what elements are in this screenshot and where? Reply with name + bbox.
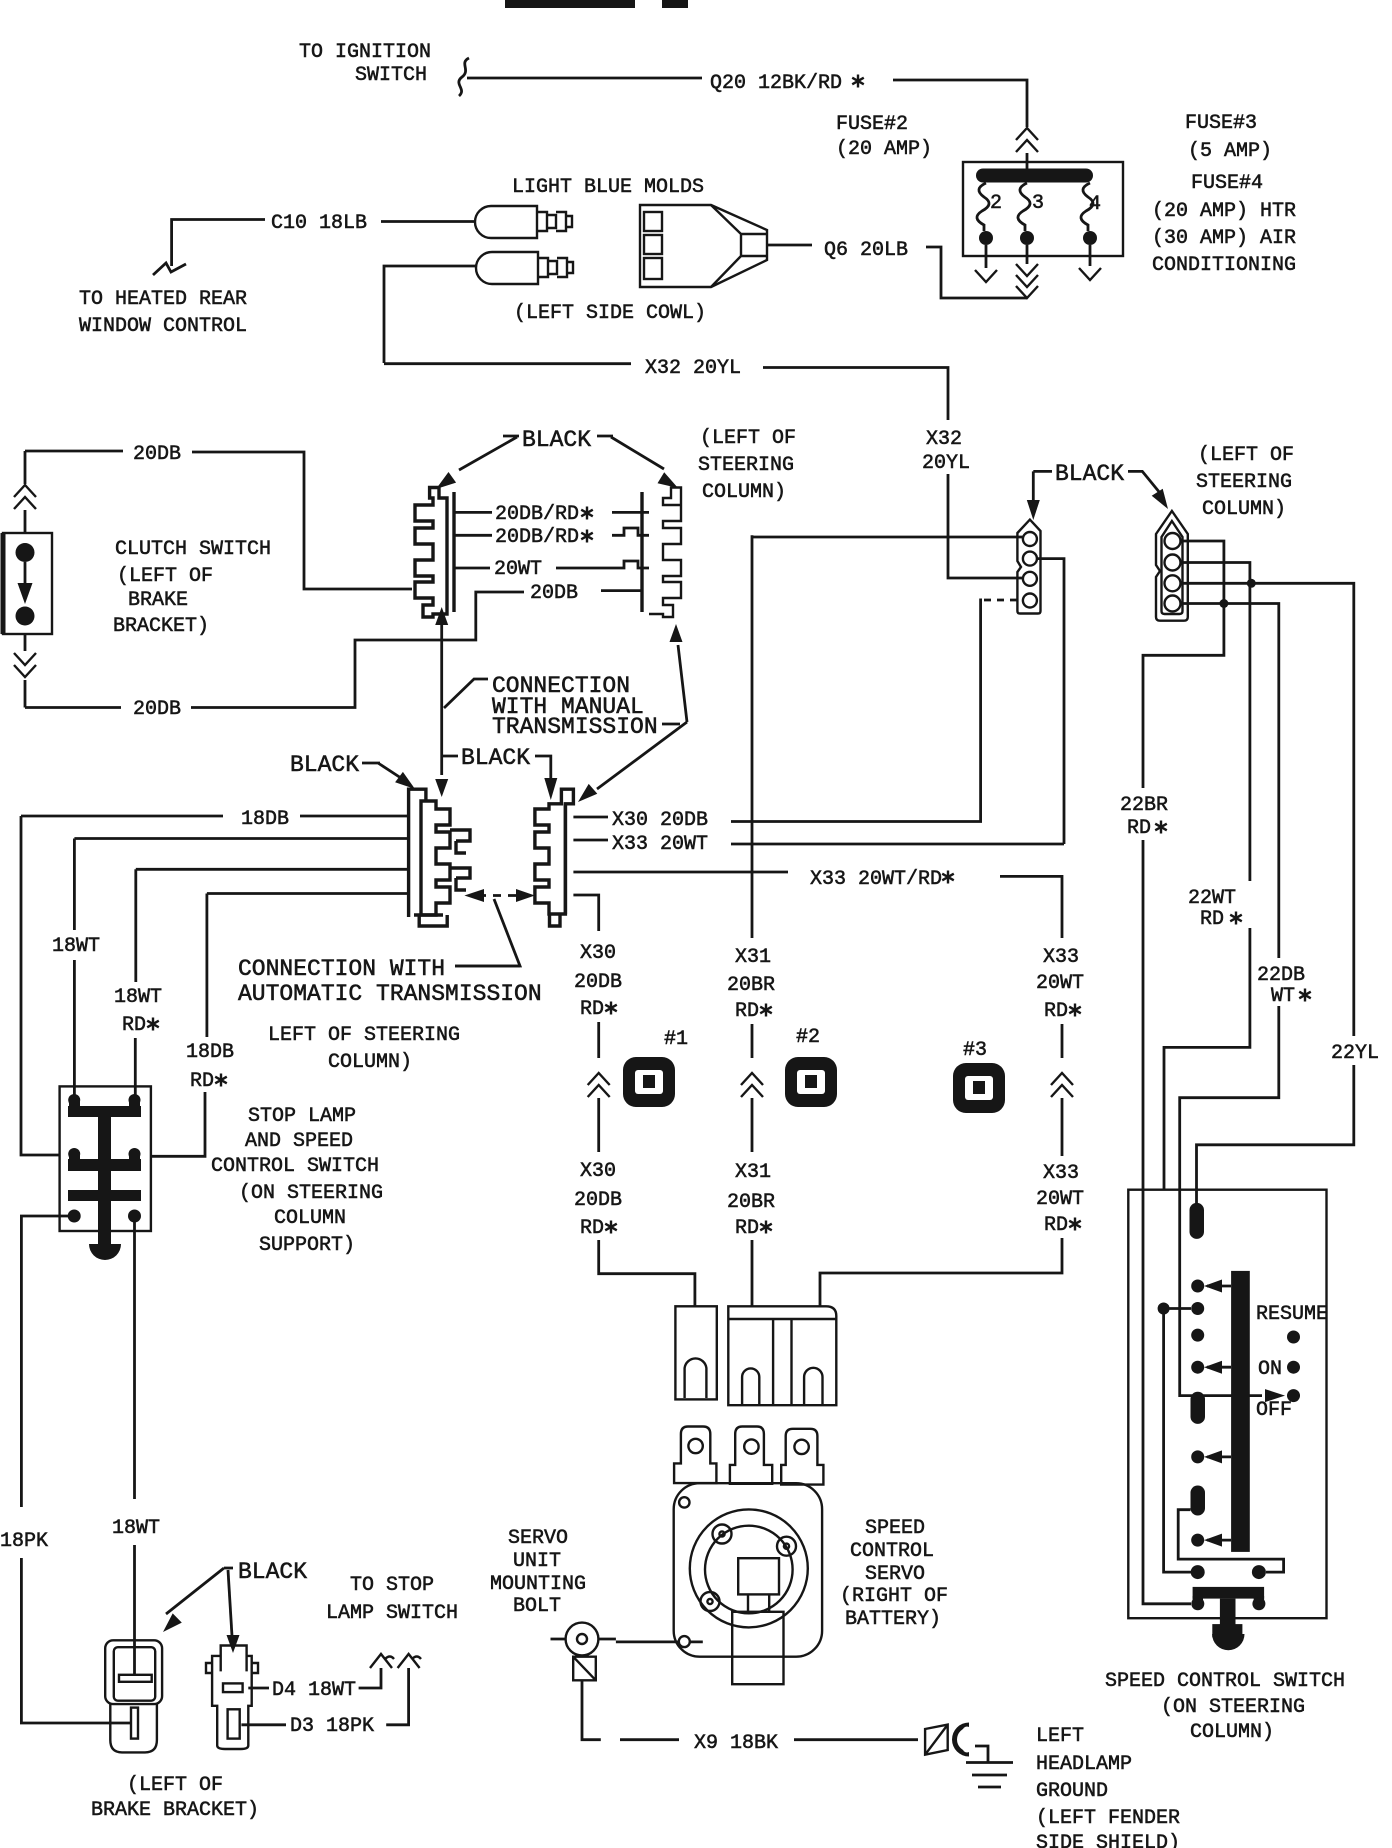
svg-text:20BR: 20BR <box>727 974 775 997</box>
svg-text:SIDE SHIELD): SIDE SHIELD) <box>1036 1832 1180 1848</box>
svg-text:X9 18BK: X9 18BK <box>694 1732 778 1755</box>
svg-text:BLACK: BLACK <box>290 752 359 778</box>
svg-text:BRACKET): BRACKET) <box>113 615 209 638</box>
svg-text:RD: RD <box>580 1217 604 1240</box>
svg-text:FUSE#3: FUSE#3 <box>1185 112 1257 135</box>
svg-text:RD: RD <box>1200 908 1224 931</box>
svg-text:18WT: 18WT <box>114 986 162 1009</box>
svg-text:X33: X33 <box>1043 946 1079 969</box>
svg-text:20DB: 20DB <box>574 971 622 994</box>
svg-text:COLUMN): COLUMN) <box>328 1051 412 1074</box>
svg-text:20DB/RD: 20DB/RD <box>495 503 579 526</box>
svg-text:RD: RD <box>1044 1000 1068 1023</box>
svg-text:CONDITIONING: CONDITIONING <box>1152 254 1296 277</box>
svg-text:18DB: 18DB <box>186 1041 234 1064</box>
svg-text:OFF: OFF <box>1256 1399 1292 1422</box>
svg-text:(LEFT FENDER: (LEFT FENDER <box>1036 1807 1180 1830</box>
svg-text:X32 20YL: X32 20YL <box>645 357 741 380</box>
svg-text:22DB: 22DB <box>1257 964 1305 987</box>
svg-text:(ON STEERING: (ON STEERING <box>239 1182 383 1205</box>
svg-text:2: 2 <box>990 192 1002 215</box>
svg-text:SERVO: SERVO <box>865 1563 925 1586</box>
svg-text:X32: X32 <box>926 428 962 451</box>
svg-text:20YL: 20YL <box>922 452 970 475</box>
svg-text:(LEFT OF: (LEFT OF <box>127 1774 223 1797</box>
svg-text:UNIT: UNIT <box>513 1550 561 1573</box>
svg-text:18WT: 18WT <box>112 1517 160 1540</box>
svg-text:CLUTCH SWITCH: CLUTCH SWITCH <box>115 538 271 561</box>
svg-text:Q6 20LB: Q6 20LB <box>824 239 908 262</box>
svg-text:(RIGHT OF: (RIGHT OF <box>840 1585 948 1608</box>
svg-text:STEERING: STEERING <box>698 454 794 477</box>
svg-text:(ON STEERING: (ON STEERING <box>1161 1696 1305 1719</box>
svg-text:WT: WT <box>1271 985 1295 1008</box>
svg-text:CONNECTION WITH: CONNECTION WITH <box>238 956 445 982</box>
svg-text:AUTOMATIC TRANSMISSION: AUTOMATIC TRANSMISSION <box>238 981 542 1007</box>
svg-text:X33: X33 <box>1043 1162 1079 1185</box>
svg-text:RD: RD <box>1127 817 1151 840</box>
svg-text:CONTROL SWITCH: CONTROL SWITCH <box>211 1155 379 1178</box>
svg-text:BLACK: BLACK <box>238 1559 307 1585</box>
svg-text:COLUMN: COLUMN <box>274 1207 346 1230</box>
svg-text:AND SPEED: AND SPEED <box>245 1130 353 1153</box>
svg-text:TO HEATED REAR: TO HEATED REAR <box>79 288 247 311</box>
svg-text:WINDOW CONTROL: WINDOW CONTROL <box>79 315 247 338</box>
svg-text:22YL: 22YL <box>1331 1042 1379 1065</box>
svg-text:D4 18WT: D4 18WT <box>272 1679 356 1702</box>
svg-text:RD: RD <box>735 1000 759 1023</box>
svg-text:RESUME: RESUME <box>1256 1303 1328 1326</box>
svg-text:#3: #3 <box>963 1039 987 1062</box>
svg-text:20DB/RD: 20DB/RD <box>495 526 579 549</box>
svg-text:TO STOP: TO STOP <box>350 1574 434 1597</box>
svg-text:3: 3 <box>1032 192 1044 215</box>
svg-text:(20 AMP): (20 AMP) <box>836 138 932 161</box>
svg-text:(LEFT OF: (LEFT OF <box>700 427 796 450</box>
svg-text:RD: RD <box>580 998 604 1021</box>
svg-text:SERVO: SERVO <box>508 1527 568 1550</box>
svg-text:MOUNTING: MOUNTING <box>490 1573 586 1596</box>
svg-text:SUPPORT): SUPPORT) <box>259 1234 355 1257</box>
svg-text:BRAKE: BRAKE <box>128 589 188 612</box>
svg-text:COLUMN): COLUMN) <box>1190 1721 1274 1744</box>
svg-text:18DB: 18DB <box>241 808 289 831</box>
svg-text:GROUND: GROUND <box>1036 1780 1108 1803</box>
svg-text:BLACK: BLACK <box>522 427 591 453</box>
svg-text:D3 18PK: D3 18PK <box>290 1715 374 1738</box>
svg-text:RD: RD <box>1044 1214 1068 1237</box>
svg-text:#2: #2 <box>796 1026 820 1049</box>
svg-text:20DB: 20DB <box>530 582 578 605</box>
svg-text:20BR: 20BR <box>727 1191 775 1214</box>
svg-text:TRANSMISSION: TRANSMISSION <box>492 714 658 740</box>
svg-text:(LEFT OF: (LEFT OF <box>117 565 213 588</box>
svg-text:(30 AMP) AIR: (30 AMP) AIR <box>1152 227 1296 250</box>
svg-text:(LEFT OF: (LEFT OF <box>1198 444 1294 467</box>
svg-text:BOLT: BOLT <box>513 1595 561 1618</box>
svg-text:X31: X31 <box>735 946 771 969</box>
svg-text:BLACK: BLACK <box>1055 461 1124 487</box>
svg-text:X33 20WT/RD: X33 20WT/RD <box>810 868 942 891</box>
svg-text:Q20 12BK/RD: Q20 12BK/RD <box>710 72 842 95</box>
svg-text:18PK: 18PK <box>0 1530 48 1553</box>
svg-text:FUSE#4: FUSE#4 <box>1191 172 1263 195</box>
svg-text:STEERING: STEERING <box>1196 471 1292 494</box>
svg-text:20WT: 20WT <box>1036 1188 1084 1211</box>
svg-text:22WT: 22WT <box>1188 887 1236 910</box>
svg-text:CONTROL: CONTROL <box>850 1540 934 1563</box>
svg-text:RD: RD <box>122 1014 146 1037</box>
svg-text:18WT: 18WT <box>52 935 100 958</box>
svg-text:20DB: 20DB <box>133 443 181 466</box>
svg-text:LEFT OF STEERING: LEFT OF STEERING <box>268 1024 460 1047</box>
svg-text:X30: X30 <box>580 942 616 965</box>
svg-text:ON: ON <box>1258 1358 1282 1381</box>
svg-text:RD: RD <box>190 1070 214 1093</box>
svg-text:RD: RD <box>735 1217 759 1240</box>
svg-text:(20 AMP) HTR: (20 AMP) HTR <box>1152 200 1296 223</box>
svg-text:SWITCH: SWITCH <box>355 64 427 87</box>
svg-text:SPEED CONTROL SWITCH: SPEED CONTROL SWITCH <box>1105 1670 1345 1693</box>
svg-text:SPEED: SPEED <box>865 1517 925 1540</box>
svg-text:COLUMN): COLUMN) <box>702 481 786 504</box>
svg-text:20WT: 20WT <box>1036 972 1084 995</box>
svg-text:X30 20DB: X30 20DB <box>612 809 708 832</box>
svg-text:X30: X30 <box>580 1160 616 1183</box>
svg-text:X33 20WT: X33 20WT <box>612 833 708 856</box>
svg-text:#1: #1 <box>664 1028 688 1051</box>
svg-text:X31: X31 <box>735 1161 771 1184</box>
svg-text:COLUMN): COLUMN) <box>1202 498 1286 521</box>
svg-text:TO IGNITION: TO IGNITION <box>299 41 431 64</box>
svg-text:BRAKE BRACKET): BRAKE BRACKET) <box>91 1799 259 1822</box>
svg-text:(LEFT SIDE COWL): (LEFT SIDE COWL) <box>514 302 706 325</box>
svg-text:LAMP SWITCH: LAMP SWITCH <box>326 1602 458 1625</box>
svg-text:BLACK: BLACK <box>461 745 530 771</box>
svg-text:20DB: 20DB <box>574 1189 622 1212</box>
svg-text:LEFT: LEFT <box>1036 1725 1084 1748</box>
svg-text:STOP LAMP: STOP LAMP <box>248 1105 356 1128</box>
svg-text:FUSE#2: FUSE#2 <box>836 113 908 136</box>
svg-text:C10 18LB: C10 18LB <box>271 212 367 235</box>
svg-text:HEADLAMP: HEADLAMP <box>1036 1753 1132 1776</box>
svg-text:20DB: 20DB <box>133 698 181 721</box>
svg-text:LIGHT BLUE MOLDS: LIGHT BLUE MOLDS <box>512 176 704 199</box>
svg-text:22BR: 22BR <box>1120 794 1168 817</box>
svg-text:(5 AMP): (5 AMP) <box>1188 140 1272 163</box>
svg-text:4: 4 <box>1089 193 1101 216</box>
svg-text:20WT: 20WT <box>494 558 542 581</box>
svg-text:BATTERY): BATTERY) <box>845 1608 941 1631</box>
